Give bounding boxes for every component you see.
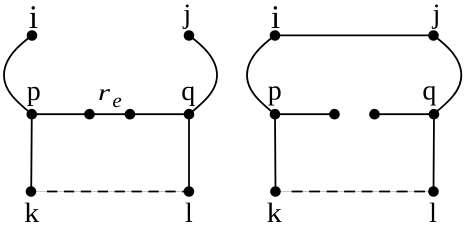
node q (left graph) bbox=[184, 109, 195, 120]
svg-text:i: i bbox=[271, 0, 280, 36]
node q (right graph) bbox=[429, 109, 440, 120]
wire: right graph edge q-l bbox=[433, 114, 436, 191]
node j (right graph) bbox=[428, 30, 439, 41]
svg-text:j: j bbox=[432, 0, 441, 30]
svg-text:q: q bbox=[422, 76, 436, 107]
node l (right graph) bbox=[428, 186, 439, 197]
node p (right graph) bbox=[270, 109, 281, 120]
wire: left graph faint underlay k-l bbox=[36, 191, 185, 193]
node i (right graph) bbox=[270, 30, 281, 41]
wire: left graph dashed edge k-l bbox=[47, 191, 189, 193]
subdivision node 2 on edge r_e (left graph) bbox=[125, 109, 136, 120]
svg-text:l: l bbox=[429, 198, 437, 222]
wire: right graph straight edge i-j bbox=[275, 34, 434, 36]
node l (left graph) bbox=[184, 186, 195, 197]
node k (right graph) bbox=[270, 186, 281, 197]
wire: left graph edge p-k bbox=[30, 114, 33, 191]
svg-text:q: q bbox=[181, 76, 195, 107]
wire: left graph edge p-q through subdivision dots bbox=[32, 113, 189, 115]
svg-text:l: l bbox=[185, 198, 193, 222]
svg-text:k: k bbox=[24, 198, 39, 222]
node p (left graph) bbox=[27, 109, 38, 120]
stub node from p (right graph) bbox=[329, 109, 340, 120]
wire: right graph dashed edge k-l bbox=[292, 191, 434, 193]
wire: right graph edge stub node to q bbox=[375, 113, 435, 115]
wire: left graph curved edge j-q bbox=[189, 36, 217, 115]
wire: left graph curved edge i-p bbox=[4, 36, 32, 115]
wire: right graph curved edge j-q bbox=[434, 36, 462, 115]
svg-text:k: k bbox=[267, 198, 282, 222]
svg-text:e: e bbox=[112, 90, 122, 112]
subdivision node 1 on edge r_e (left graph) bbox=[84, 109, 95, 120]
svg-text:i: i bbox=[29, 0, 38, 36]
svg-text:p: p bbox=[27, 76, 41, 107]
node i (left graph) bbox=[27, 30, 38, 41]
stub node from q (right graph) bbox=[369, 109, 380, 120]
wire: left graph edge q-l bbox=[188, 114, 190, 191]
wire: right graph edge p to stub node bbox=[275, 113, 335, 115]
node j (left graph) bbox=[184, 30, 195, 41]
wire: right graph faint underlay k-l bbox=[280, 191, 429, 193]
wire: right graph curved edge i-p bbox=[247, 36, 275, 115]
svg-text:p: p bbox=[268, 75, 282, 106]
svg-text:j: j bbox=[182, 0, 191, 30]
node k (left graph) bbox=[26, 186, 37, 197]
svg-text:r: r bbox=[98, 80, 111, 105]
wire: right graph edge p-k bbox=[274, 114, 277, 191]
